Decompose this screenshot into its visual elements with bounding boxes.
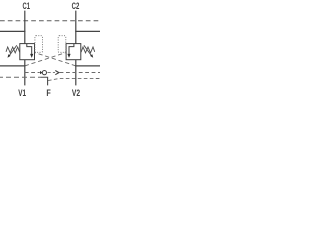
CB2 spring	[81, 47, 95, 53]
port F stub	[40, 77, 47, 85]
drain line from left edge to F (dashed)	[0, 76, 40, 78]
wire C1 branch to left edge	[0, 30, 25, 32]
wire V1 vertical	[24, 60, 26, 86]
wire C2 vertical	[75, 11, 77, 44]
svg-text:C1: C1	[23, 1, 31, 12]
wire V2 vertical	[75, 60, 77, 86]
CB1 pilot piston (dotted box)	[35, 36, 43, 53]
enclosure boundary top (dashed)	[0, 20, 100, 22]
CB2 flow arrow	[69, 44, 74, 55]
wire C2 branch to right edge	[75, 30, 100, 32]
svg-text:V1: V1	[18, 88, 26, 99]
pilot gallery line V1 node to check (dashed)	[25, 72, 40, 74]
drain line F to right edge (dashed)	[48, 79, 100, 81]
CB2 pilot piston (dotted box)	[58, 36, 66, 53]
wire V1 branch to left edge	[0, 65, 25, 67]
pilot line from V1 node to CB2 piston (dashed diagonal)	[25, 53, 66, 66]
pilot flow arrow	[48, 72, 56, 74]
svg-text:V2: V2	[72, 88, 80, 99]
counterbalance valve CB1 body	[20, 44, 35, 60]
svg-text:C2: C2	[72, 1, 80, 12]
check valve seat	[40, 71, 43, 74]
CB1 flow arrow	[27, 44, 32, 55]
CB2 adjustment arrow	[84, 45, 92, 56]
CB1 adjustment arrow	[9, 45, 17, 56]
pilot line from V2 node to CB1 piston (dashed diagonal)	[35, 53, 76, 66]
wire V2 branch to right edge	[75, 65, 100, 67]
check valve ball	[42, 71, 46, 75]
CB1 spring	[6, 47, 20, 53]
svg-text:F: F	[46, 88, 51, 99]
wire C1 vertical	[24, 11, 26, 44]
counterbalance valve CB2 body	[66, 44, 81, 60]
pilot gallery line to V2 node and right edge (dashed)	[60, 72, 100, 74]
